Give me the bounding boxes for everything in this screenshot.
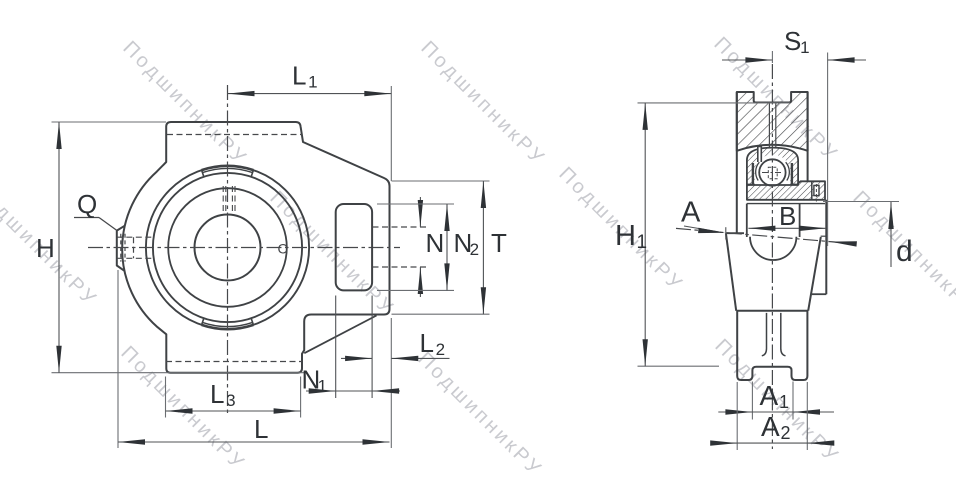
housing left wall (736, 92, 738, 233)
dimension L1 (390, 86, 392, 181)
dimension B (748, 227, 826, 229)
body trapezoid left slant (726, 233, 736, 311)
rail T-section (hatched) (737, 92, 808, 151)
svg-text:L: L (210, 379, 224, 409)
svg-text:B: B (779, 201, 796, 231)
dimension L3 (165, 377, 167, 418)
svg-text:A: A (681, 197, 701, 229)
svg-text:H: H (615, 220, 636, 252)
svg-text:1: 1 (800, 38, 809, 57)
svg-text:C: C (278, 241, 288, 257)
screw slot fork lines (762, 313, 767, 356)
dimension N1 (335, 296, 337, 399)
svg-text:A: A (760, 380, 779, 411)
Q label with leader (74, 217, 99, 219)
slot in right lug (336, 204, 372, 290)
dimension H1 (638, 102, 791, 104)
body trapezoid right slant (808, 237, 821, 311)
set screw (814, 185, 819, 195)
bore walls below bearing (746, 204, 748, 237)
housing right wall (807, 92, 809, 181)
svg-text:L: L (292, 60, 306, 90)
take-up screw hole walls in section (768, 103, 770, 148)
housing seat bore circle (146, 166, 309, 329)
vertical centerline front view (227, 85, 229, 416)
dimension L2 (341, 357, 372, 359)
dimension T (392, 180, 490, 182)
ball center dashed square (768, 167, 777, 179)
collar side silhouette (825, 200, 827, 294)
svg-text:3: 3 (226, 391, 235, 410)
side view centerline (771, 51, 773, 63)
raceway arcs (756, 162, 760, 180)
web chamfer line lower right (304, 316, 376, 354)
dimension N (419, 197, 421, 227)
svg-text:1: 1 (779, 392, 789, 412)
lube groove strip bottom (202, 325, 254, 329)
dimension A2 (736, 382, 738, 450)
inner ring and locking collar (hatched) (747, 181, 825, 200)
dimension N2 (377, 203, 454, 205)
svg-text:2: 2 (436, 340, 445, 359)
dimension A1 (751, 382, 753, 420)
svg-text:1: 1 (637, 232, 648, 253)
svg-text:1: 1 (318, 377, 327, 396)
bearing outer ring (hatched) (747, 148, 798, 185)
bearing insert sphere OD circle (153, 173, 302, 322)
svg-text:2: 2 (781, 423, 791, 443)
seals (752, 163, 754, 184)
lower edge line under bearing (747, 203, 825, 205)
svg-text:A: A (761, 411, 780, 442)
svg-text:2: 2 (470, 240, 479, 259)
hidden slot floor line, bottom rail (166, 361, 302, 363)
dimension L (117, 270, 119, 448)
inner ring / seal circle (168, 188, 287, 307)
svg-text:1: 1 (308, 72, 317, 91)
dimension d (823, 201, 899, 203)
svg-text:T: T (491, 228, 507, 258)
bore circle (195, 215, 261, 281)
hidden lube hole (dashed) above bore (222, 186, 224, 211)
tilted misalignment axis (676, 228, 851, 243)
dimension H (52, 121, 167, 123)
grease boss (left) (117, 226, 125, 271)
dimension S1 (827, 53, 829, 247)
svg-text:S: S (784, 26, 801, 56)
horizontal centerline front view (88, 247, 400, 249)
lube groove strip top (202, 166, 254, 170)
left bulge step (726, 232, 744, 234)
housing body outline (front view) (122, 122, 389, 373)
bottom rail block (736, 311, 808, 380)
svg-text:L: L (254, 414, 268, 444)
svg-text:d: d (896, 235, 913, 268)
svg-text:Q: Q (77, 189, 97, 219)
dimension A (tilted axis label) (725, 227, 727, 239)
slot hidden lines (N extension, dashed) (373, 226, 428, 228)
anti-rotation pin (758, 147, 762, 163)
svg-text:L: L (420, 328, 434, 358)
ball (759, 159, 785, 185)
svg-text:H: H (36, 233, 55, 263)
svg-text:N: N (426, 228, 445, 258)
spherical seat bottom arc (750, 237, 796, 260)
hidden slot floor line, top rail (167, 134, 302, 136)
hidden grease hole in boss (dashed) (117, 236, 154, 238)
